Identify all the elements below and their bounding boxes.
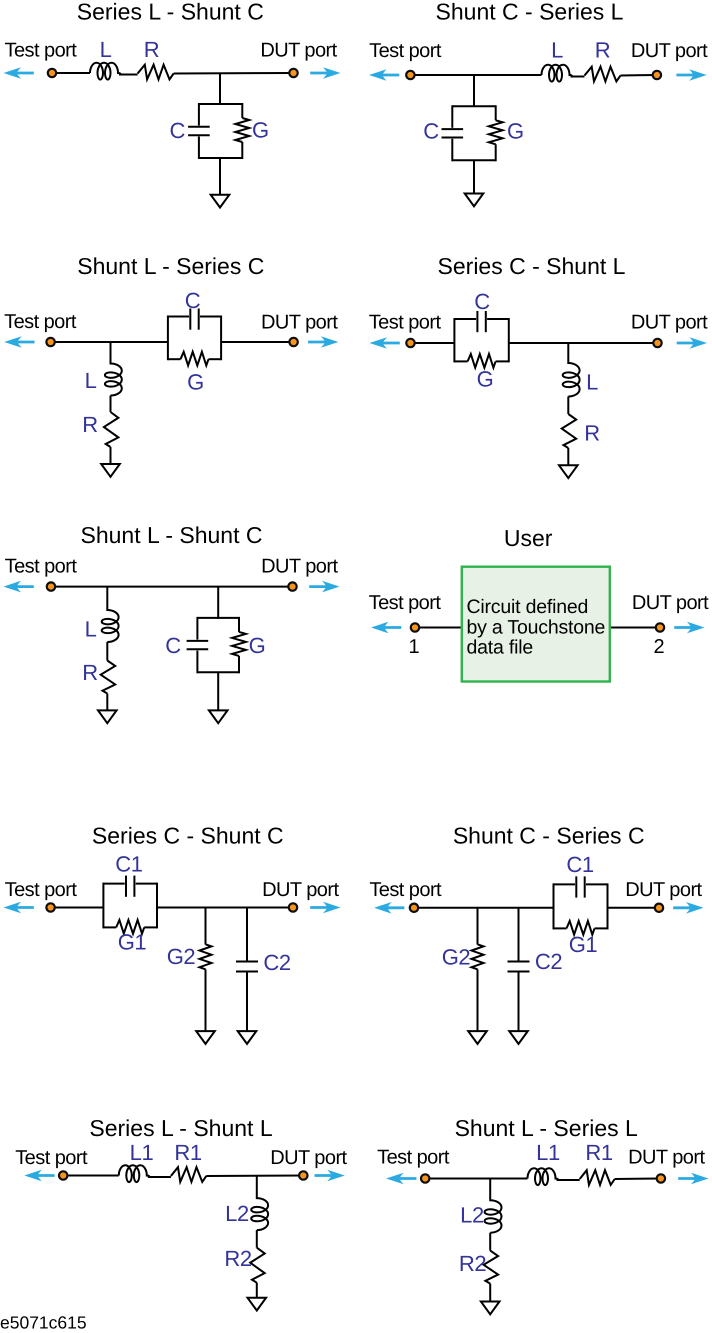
svg-text:G2: G2	[167, 944, 196, 969]
svg-text:R: R	[584, 420, 600, 445]
svg-text:Series L - Shunt C: Series L - Shunt C	[77, 0, 264, 25]
svg-text:Series L - Shunt L: Series L - Shunt L	[89, 1115, 272, 1141]
svg-text:L: L	[100, 37, 112, 62]
svg-text:G: G	[249, 633, 266, 658]
svg-text:DUT port: DUT port	[631, 40, 708, 62]
svg-text:Shunt C - Series L: Shunt C - Series L	[436, 0, 624, 25]
svg-text:L1: L1	[130, 1140, 154, 1165]
svg-text:data file: data file	[467, 637, 534, 659]
svg-text:Test port: Test port	[5, 40, 78, 62]
svg-text:Test port: Test port	[5, 879, 78, 901]
svg-text:G2: G2	[442, 944, 471, 969]
svg-text:G: G	[252, 117, 269, 142]
svg-text:C: C	[423, 118, 439, 143]
svg-text:L: L	[85, 616, 97, 641]
svg-text:C2: C2	[535, 949, 562, 974]
svg-text:L2: L2	[460, 1202, 484, 1227]
svg-text:by a Touchstone: by a Touchstone	[467, 616, 606, 638]
svg-text:C: C	[169, 118, 185, 143]
svg-text:Shunt L - Series L: Shunt L - Series L	[455, 1115, 638, 1141]
svg-text:C1: C1	[115, 851, 142, 876]
svg-text:R2: R2	[224, 1246, 251, 1271]
svg-text:L: L	[85, 368, 97, 393]
svg-text:DUT port: DUT port	[262, 879, 339, 901]
svg-text:G: G	[187, 369, 204, 394]
svg-text:L1: L1	[536, 1140, 560, 1165]
svg-text:DUT port: DUT port	[260, 40, 337, 62]
svg-text:Test port: Test port	[5, 556, 78, 578]
svg-text:Shunt L - Series C: Shunt L - Series C	[77, 253, 264, 279]
svg-text:Test port: Test port	[377, 1147, 450, 1169]
svg-text:C: C	[165, 633, 181, 658]
svg-text:C2: C2	[263, 950, 290, 975]
svg-text:R: R	[144, 37, 160, 62]
svg-text:R: R	[82, 412, 98, 437]
svg-text:Circuit defined: Circuit defined	[467, 596, 589, 618]
svg-text:DUT port: DUT port	[625, 879, 702, 901]
svg-text:R: R	[595, 37, 611, 62]
svg-text:R: R	[82, 660, 98, 685]
svg-text:Test port: Test port	[369, 40, 442, 62]
svg-text:R2: R2	[459, 1251, 486, 1276]
svg-text:C: C	[185, 288, 201, 313]
svg-text:G: G	[477, 367, 494, 392]
svg-text:Shunt C - Series C: Shunt C - Series C	[453, 823, 645, 849]
svg-text:Test port: Test port	[15, 1147, 88, 1169]
svg-text:User: User	[504, 525, 553, 551]
svg-text:G1: G1	[569, 932, 598, 957]
svg-text:Series C - Shunt C: Series C - Shunt C	[92, 823, 284, 849]
svg-text:Test port: Test port	[369, 592, 442, 614]
svg-text:C: C	[474, 289, 490, 314]
svg-text:DUT port: DUT port	[631, 312, 708, 334]
svg-text:L: L	[586, 369, 598, 394]
svg-text:Test port: Test port	[369, 879, 442, 901]
svg-text:L2: L2	[225, 1201, 249, 1226]
svg-text:DUT port: DUT port	[261, 312, 338, 334]
svg-text:DUT port: DUT port	[632, 592, 709, 614]
svg-text:DUT port: DUT port	[628, 1147, 705, 1169]
svg-text:1: 1	[408, 636, 419, 658]
svg-text:R1: R1	[585, 1140, 612, 1165]
svg-text:G: G	[507, 118, 524, 143]
svg-text:Series C - Shunt L: Series C - Shunt L	[438, 253, 626, 279]
svg-text:Shunt L - Shunt C: Shunt L - Shunt C	[81, 522, 263, 548]
svg-text:DUT port: DUT port	[270, 1147, 347, 1169]
svg-text:Test port: Test port	[369, 312, 442, 334]
svg-text:e5071c615: e5071c615	[0, 1313, 87, 1333]
svg-text:C1: C1	[566, 852, 593, 877]
svg-text:Test port: Test port	[4, 311, 77, 333]
svg-text:L: L	[551, 37, 563, 62]
svg-text:2: 2	[653, 636, 664, 658]
svg-text:G1: G1	[118, 929, 147, 954]
svg-text:R1: R1	[174, 1140, 201, 1165]
svg-text:DUT port: DUT port	[261, 556, 338, 578]
